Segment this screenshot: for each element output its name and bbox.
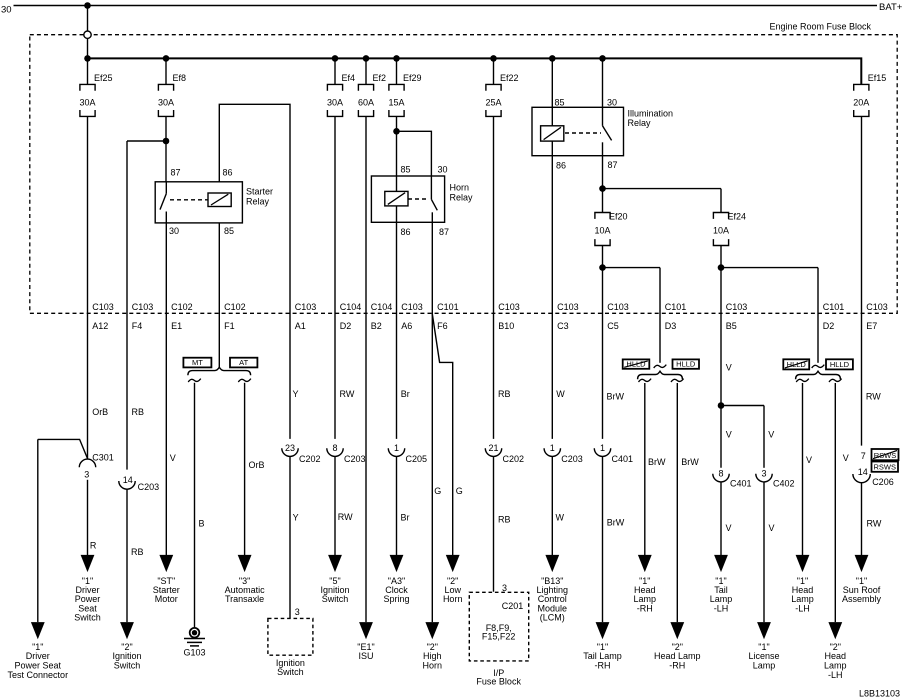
connector bulkhead pass-through circle — [84, 31, 91, 38]
svg-text:C206: C206 — [872, 477, 894, 487]
svg-text:G: G — [456, 486, 463, 496]
svg-text:RB: RB — [498, 389, 511, 399]
svg-text:C104: C104 — [371, 302, 393, 312]
svg-text:A6: A6 — [401, 321, 412, 331]
svg-text:30: 30 — [607, 98, 617, 108]
svg-text:V: V — [726, 363, 732, 373]
terminal license lamp — [757, 622, 771, 639]
fuse Ef25 30A — [80, 84, 95, 90]
svg-text:C202: C202 — [503, 454, 525, 464]
svg-text:C103: C103 — [132, 302, 154, 312]
wire C5 lower to tail lamp RH — [602, 456, 604, 622]
svg-text:D3: D3 — [665, 321, 677, 331]
svg-text:A12: A12 — [92, 321, 108, 331]
svg-text:Horn: Horn — [423, 661, 443, 671]
wire illumination relay 86 to C3 — [551, 156, 553, 439]
harness split D3 head lamps RH — [654, 365, 667, 368]
svg-text:Ef22: Ef22 — [500, 73, 519, 83]
option tag RSWS (crossed) — [872, 449, 899, 460]
svg-text:C101: C101 — [823, 302, 845, 312]
option tag HLLD (crossed) — [623, 359, 650, 368]
svg-text:C103: C103 — [498, 302, 520, 312]
svg-text:V: V — [726, 523, 732, 533]
wire branch to F4 — [127, 140, 166, 142]
junction B5/D2 — [718, 264, 725, 271]
svg-text:RW: RW — [338, 512, 353, 522]
svg-text:C203: C203 — [138, 482, 160, 492]
svg-text:C3: C3 — [557, 321, 569, 331]
svg-text:G: G — [434, 486, 441, 496]
svg-text:Transaxle: Transaxle — [225, 594, 264, 604]
terminal ignition switch 5 — [328, 555, 342, 572]
wire D3 drop — [659, 268, 661, 363]
svg-text:G103: G103 — [183, 648, 205, 658]
svg-text:-RH: -RH — [669, 661, 685, 671]
fuse Ef22 25A — [486, 84, 501, 90]
svg-text:Motor: Motor — [155, 594, 178, 604]
junction bus tap — [84, 55, 91, 62]
svg-text:C402: C402 — [773, 479, 795, 489]
wire D2 drop — [817, 268, 819, 363]
svg-text:RB: RB — [132, 407, 145, 417]
terminal driver power seat test connector — [31, 622, 45, 639]
svg-text:Test Connector: Test Connector — [8, 670, 69, 680]
wire branch to test connector — [38, 439, 88, 458]
svg-text:C203: C203 — [561, 454, 583, 464]
svg-text:C102: C102 — [171, 302, 193, 312]
wire starter relay 85 to F1 — [218, 223, 220, 367]
svg-text:A1: A1 — [295, 321, 306, 331]
svg-text:Switch: Switch — [322, 594, 349, 604]
svg-text:10A: 10A — [594, 226, 610, 236]
svg-text:F15,F22: F15,F22 — [482, 632, 516, 642]
relay Starter Relay box — [155, 182, 242, 223]
wire main bus inside fuse block — [88, 58, 862, 84]
wire Ef22 to B10 I/P fuse block — [493, 116, 495, 439]
wire head lamp RH 2 — [676, 383, 678, 622]
svg-text:V: V — [843, 453, 849, 463]
svg-text:HLLD: HLLD — [830, 360, 850, 369]
junction bus tap — [393, 55, 400, 62]
svg-text:Ef20: Ef20 — [609, 212, 628, 222]
svg-text:3: 3 — [502, 583, 507, 593]
svg-text:C203: C203 — [344, 454, 366, 464]
svg-text:Spring: Spring — [383, 594, 409, 604]
svg-text:25A: 25A — [485, 98, 501, 108]
wire Ef15 to E7 sun roof — [861, 116, 863, 445]
svg-text:Illumination: Illumination — [628, 108, 674, 118]
svg-text:87: 87 — [608, 160, 618, 170]
junction BAT+ tap — [84, 2, 91, 9]
horn relay coil — [396, 176, 398, 191]
wire branch to horn relay 30 — [397, 131, 432, 176]
svg-text:60A: 60A — [358, 98, 374, 108]
wire MT branch to ground — [194, 383, 196, 627]
junction Ef29 branch — [393, 128, 400, 135]
svg-text:W: W — [556, 513, 565, 523]
junction bus tap — [549, 55, 556, 62]
wire bus to fuse — [365, 58, 367, 84]
component I/P Fuse Block C201 (dashed box) — [469, 592, 528, 661]
wire bus to illumination relay 85 — [551, 58, 553, 107]
svg-text:C101: C101 — [665, 302, 687, 312]
wire battery drop into fuse block — [87, 6, 89, 59]
connector C301 pin 3 — [79, 459, 95, 467]
wire Ef20 output C5 — [602, 246, 604, 439]
svg-text:C104: C104 — [340, 302, 362, 312]
option tag MT — [183, 358, 211, 368]
fuse Ef29 15A — [389, 84, 404, 90]
svg-text:V: V — [806, 455, 812, 465]
svg-text:RSWS: RSWS — [874, 463, 897, 472]
svg-text:C103: C103 — [866, 302, 888, 312]
terminal low horn — [446, 555, 460, 572]
terminal starter motor — [159, 555, 173, 572]
svg-text:85: 85 — [224, 226, 234, 236]
svg-text:30: 30 — [438, 165, 448, 175]
junction C5/D3 — [599, 264, 606, 271]
svg-text:C103: C103 — [557, 302, 579, 312]
terminal head lamp RH 2 — [670, 622, 684, 639]
svg-text:Ef15: Ef15 — [868, 73, 887, 83]
wire A12 lower (R) — [87, 480, 89, 556]
svg-text:86: 86 — [223, 168, 233, 178]
illumination relay coil — [551, 107, 553, 126]
svg-text:E1: E1 — [171, 321, 182, 331]
svg-text:Y: Y — [293, 389, 299, 399]
svg-text:15A: 15A — [388, 98, 404, 108]
svg-text:C401: C401 — [730, 479, 752, 489]
component Ignition Switch (dashed box) — [268, 618, 313, 655]
junction bus tap — [163, 55, 170, 62]
svg-text:C401: C401 — [612, 454, 634, 464]
wire F4 drop upper — [126, 141, 128, 470]
svg-text:OrB: OrB — [249, 460, 265, 470]
svg-text:V: V — [768, 430, 774, 440]
svg-text:C201: C201 — [502, 601, 524, 611]
svg-text:AT: AT — [239, 358, 248, 367]
svg-text:3: 3 — [84, 470, 89, 480]
svg-text:21: 21 — [488, 443, 498, 453]
wire starter relay coil feed (86 riser to A1) — [219, 104, 290, 439]
svg-text:BAT+: BAT+ — [879, 2, 903, 13]
wire horn relay 86 to A6 — [396, 222, 398, 439]
svg-text:RB: RB — [498, 515, 511, 525]
starter relay switch blade — [165, 182, 167, 194]
svg-text:Switch: Switch — [74, 613, 101, 623]
fuse Ef4 30A — [327, 84, 342, 90]
svg-text:Ef4: Ef4 — [342, 73, 356, 83]
svg-text:V: V — [769, 523, 775, 533]
svg-text:8: 8 — [332, 443, 337, 453]
terminal clock spring — [390, 555, 404, 572]
wire head lamp LH 1 — [802, 383, 804, 556]
svg-text:BrW: BrW — [681, 457, 699, 467]
junction bus tap — [332, 55, 339, 62]
svg-text:20A: 20A — [853, 98, 869, 108]
svg-text:RB: RB — [131, 547, 144, 557]
svg-text:F1: F1 — [224, 321, 235, 331]
svg-text:30A: 30A — [79, 98, 95, 108]
illumination relay actuator dashes — [565, 132, 601, 134]
terminal ISU — [359, 622, 373, 639]
svg-text:23: 23 — [285, 443, 295, 453]
option tag AT — [230, 358, 257, 368]
svg-text:BrW: BrW — [648, 457, 666, 467]
relay Horn Relay box — [371, 176, 444, 222]
svg-text:Horn: Horn — [450, 183, 470, 193]
svg-text:Fuse Block: Fuse Block — [476, 677, 521, 687]
terminal high horn — [425, 622, 439, 639]
svg-text:RW: RW — [866, 392, 881, 402]
svg-text:1: 1 — [394, 443, 399, 453]
svg-text:L8B13103: L8B13103 — [859, 689, 900, 699]
terminal sun roof assembly — [855, 555, 869, 572]
svg-text:Br: Br — [401, 513, 410, 523]
svg-text:Relay: Relay — [628, 118, 652, 128]
svg-text:C103: C103 — [726, 302, 748, 312]
svg-text:Horn: Horn — [443, 594, 463, 604]
svg-text:(LCM): (LCM) — [540, 613, 565, 623]
svg-text:V: V — [170, 453, 176, 463]
svg-text:D2: D2 — [340, 321, 352, 331]
svg-text:BrW: BrW — [607, 392, 625, 402]
svg-text:-LH: -LH — [714, 603, 729, 613]
junction bus tap — [490, 55, 497, 62]
wire illumination relay 87 to Ef20/Ef24 — [602, 156, 604, 213]
svg-text:3: 3 — [761, 468, 766, 478]
wire bus to fuse — [493, 58, 495, 84]
svg-text:87: 87 — [439, 227, 449, 237]
svg-text:C102: C102 — [224, 302, 246, 312]
terminal automatic transaxle — [238, 555, 252, 572]
fuse Ef24 10A — [713, 213, 728, 219]
svg-text:Assembly: Assembly — [842, 594, 882, 604]
svg-text:Relay: Relay — [450, 192, 474, 202]
svg-text:C301: C301 — [92, 453, 114, 463]
svg-text:MT: MT — [192, 358, 203, 367]
wire horn relay 87 to F6 / high horn — [431, 222, 433, 622]
svg-text:Ef24: Ef24 — [728, 212, 747, 222]
svg-text:Starter: Starter — [246, 187, 273, 197]
svg-text:V: V — [726, 430, 732, 440]
svg-text:B2: B2 — [371, 321, 382, 331]
svg-text:30A: 30A — [327, 98, 343, 108]
fuse Ef20 10A — [595, 213, 610, 219]
wire Ef8 output — [165, 116, 167, 181]
wire head lamp LH 2 — [834, 383, 836, 622]
wire F4 lower — [126, 489, 128, 622]
svg-text:BrW: BrW — [607, 518, 625, 528]
svg-text:OrB: OrB — [92, 407, 108, 417]
terminal head lamp LH 2 — [828, 622, 842, 639]
svg-text:86: 86 — [556, 160, 566, 170]
wire bus to fuse — [396, 58, 398, 84]
option tag HLLD — [826, 359, 853, 369]
svg-text:E7: E7 — [866, 321, 877, 331]
svg-text:-LH: -LH — [828, 670, 843, 680]
svg-text:Ef2: Ef2 — [373, 73, 387, 83]
wire Ef29 output — [396, 116, 398, 176]
wire Ef4 to D2 ignition switch 5 — [334, 116, 336, 439]
svg-text:RW: RW — [340, 389, 355, 399]
svg-text:-RH: -RH — [637, 603, 653, 613]
option tag HLLD (crossed) — [783, 359, 809, 369]
svg-text:B5: B5 — [726, 321, 737, 331]
wire bus to fuse — [165, 58, 167, 84]
wire A12 drop — [87, 116, 89, 459]
svg-text:14: 14 — [123, 475, 133, 485]
svg-text:B: B — [199, 519, 205, 529]
svg-text:C103: C103 — [607, 302, 629, 312]
svg-text:1: 1 — [550, 443, 555, 453]
wire license lamp drop — [763, 406, 765, 468]
starter relay coil — [208, 193, 231, 207]
svg-text:Lamp: Lamp — [753, 661, 776, 671]
terminal tail lamp RH — [596, 622, 610, 639]
svg-text:ISU: ISU — [358, 651, 373, 661]
option tag HLLD — [673, 359, 700, 368]
wire AT branch — [244, 383, 246, 556]
option tag RSWS — [872, 462, 899, 472]
svg-text:85: 85 — [555, 98, 565, 108]
terminal head lamp RH 1 — [638, 555, 652, 572]
fuse Ef8 30A — [158, 84, 173, 90]
svg-text:C5: C5 — [607, 321, 619, 331]
wire A1 lower — [289, 456, 291, 618]
terminal ignition switch 2 — [120, 622, 134, 639]
svg-text:R: R — [90, 541, 97, 551]
svg-text:3: 3 — [295, 607, 300, 617]
svg-text:C202: C202 — [299, 454, 321, 464]
terminal driver power seat switch — [81, 555, 95, 572]
fuse Ef2 60A — [358, 84, 373, 90]
svg-text:-RH: -RH — [595, 661, 611, 671]
wire bus to illumination relay 30 — [602, 58, 604, 107]
svg-text:-LH: -LH — [795, 603, 810, 613]
starter relay actuator dashes — [170, 199, 208, 201]
svg-text:B10: B10 — [498, 321, 514, 331]
Engine Room Fuse Block boundary — [30, 35, 897, 314]
wire Ef2 to B2 ISU — [365, 116, 367, 622]
svg-text:C101: C101 — [437, 302, 459, 312]
svg-text:30A: 30A — [158, 98, 174, 108]
wire starter relay 30 output to ST motor — [165, 223, 167, 556]
svg-text:86: 86 — [401, 227, 411, 237]
wire B5 lower to tail lamp LH — [720, 482, 722, 556]
relay Illumination Relay box — [532, 107, 624, 155]
svg-text:C103: C103 — [401, 302, 423, 312]
fuse Ef15 20A — [854, 84, 869, 90]
svg-text:Engine Room Fuse Block: Engine Room Fuse Block — [769, 22, 871, 32]
svg-text:87: 87 — [171, 168, 181, 178]
svg-text:1: 1 — [600, 443, 605, 453]
ground G103 — [190, 628, 200, 638]
svg-text:Ef25: Ef25 — [94, 73, 113, 83]
svg-text:8: 8 — [718, 468, 723, 478]
terminal lighting control module — [545, 555, 559, 572]
wire Ef24 output B5 — [720, 246, 722, 468]
svg-text:Switch: Switch — [277, 667, 304, 677]
wire head lamp RH 1 — [644, 383, 646, 556]
svg-text:C103: C103 — [92, 302, 114, 312]
junction Ef20/Ef24 feed — [599, 185, 606, 192]
wire BAT+ top feed — [14, 5, 878, 7]
svg-text:10A: 10A — [713, 226, 729, 236]
svg-text:85: 85 — [401, 165, 411, 175]
junction Ef8 branch — [163, 138, 170, 145]
svg-text:W: W — [556, 389, 565, 399]
svg-text:RW: RW — [867, 519, 882, 529]
svg-text:HLLD: HLLD — [676, 360, 696, 369]
junction bus tap — [363, 55, 370, 62]
harness split D2 head lamps LH — [812, 365, 825, 368]
svg-text:30: 30 — [169, 226, 179, 236]
svg-text:Ef8: Ef8 — [173, 73, 187, 83]
svg-text:Switch: Switch — [114, 661, 141, 671]
junction bus tap — [599, 55, 606, 62]
svg-text:Ef29: Ef29 — [403, 73, 422, 83]
svg-text:F4: F4 — [132, 321, 143, 331]
horn relay switch blade — [430, 176, 432, 199]
svg-text:Br: Br — [401, 389, 410, 399]
svg-text:Y: Y — [293, 513, 299, 523]
svg-text:Relay: Relay — [246, 196, 270, 206]
svg-text:14: 14 — [858, 467, 868, 477]
illumination relay switch blade — [602, 107, 604, 126]
terminal tail lamp LH — [714, 555, 728, 572]
svg-text:30: 30 — [1, 5, 12, 16]
svg-text:D2: D2 — [823, 321, 835, 331]
wire F6 branch to low horn — [432, 314, 452, 556]
svg-text:F6: F6 — [437, 321, 448, 331]
svg-text:C103: C103 — [295, 302, 317, 312]
junction B5 license branch — [718, 402, 725, 409]
wire bus to fuse — [87, 58, 89, 84]
svg-text:7: 7 — [861, 451, 866, 461]
svg-text:C205: C205 — [406, 454, 428, 464]
terminal head lamp LH 1 — [796, 555, 810, 572]
horn relay actuator dashes — [408, 198, 426, 200]
harness split F1 MT/AT — [188, 367, 251, 375]
wire bus to fuse — [334, 58, 336, 84]
